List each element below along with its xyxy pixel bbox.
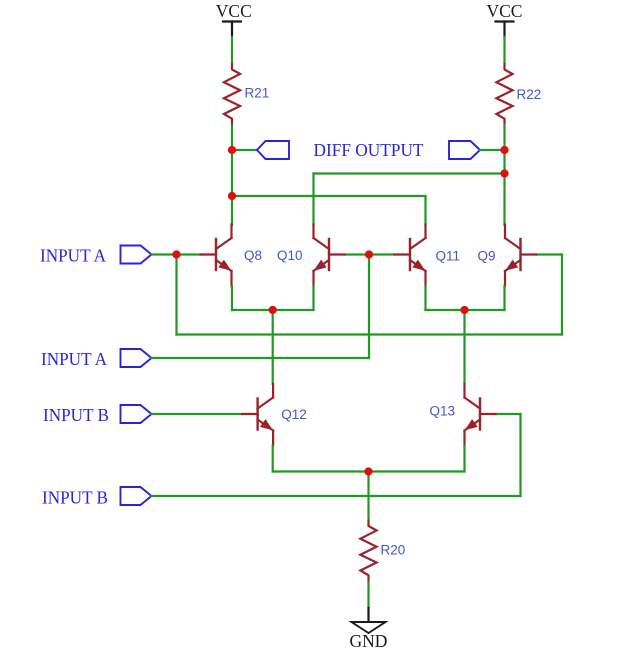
label INPUT A (upper) xyxy=(40,245,106,265)
svg-text:VCC: VCC xyxy=(487,1,523,21)
transistor Q13 xyxy=(430,384,496,446)
wire right flag to node R1 xyxy=(480,149,505,151)
wire R20 to ground lead xyxy=(367,582,369,608)
terminal INPUT A lower xyxy=(121,349,152,367)
wire to Q9 base lead xyxy=(536,253,562,255)
label INPUT B (upper) xyxy=(43,405,109,425)
terminal flag DIFF OUTPUT right xyxy=(449,141,480,159)
wire up to Q9 base xyxy=(561,255,563,335)
svg-text:DIFF OUTPUT: DIFF OUTPUT xyxy=(314,140,424,160)
wire Q8-Q10 emitters xyxy=(232,309,314,311)
wire up to Q13 base xyxy=(519,414,521,496)
junction node L2 xyxy=(228,192,236,200)
wire node C to Q11 base xyxy=(369,253,394,255)
junction node C xyxy=(365,250,373,258)
wire VCC-right to R22 xyxy=(503,37,505,63)
wire node E1 to Q12 collector xyxy=(272,310,274,384)
wire Q13 emitter down xyxy=(463,446,465,472)
svg-text:Q9: Q9 xyxy=(478,249,496,264)
transistor Q11 xyxy=(395,225,461,287)
terminal INPUT B upper xyxy=(121,405,152,423)
terminal flag DIFF OUTPUT left xyxy=(257,141,289,159)
wire node C down to INPUT A lower xyxy=(368,255,370,359)
wire down to Q10 collector (vert) xyxy=(312,174,314,226)
svg-text:Q12: Q12 xyxy=(281,407,307,422)
wire node L1 down to node L2 xyxy=(231,150,233,196)
wire VCC-left to R21 xyxy=(231,37,233,63)
wire Q11 emitter down xyxy=(424,286,426,310)
wire Q12-Q13 emitters xyxy=(273,470,465,472)
wire to Q13 base lead xyxy=(496,413,521,415)
wire R21 to node L1 xyxy=(231,125,233,150)
svg-text:R21: R21 xyxy=(245,86,270,101)
svg-text:Q8: Q8 xyxy=(244,248,262,263)
transistor Q9 xyxy=(478,225,537,287)
svg-text:INPUT B: INPUT B xyxy=(43,405,109,425)
transistor Q10 xyxy=(277,225,345,287)
wire node R2 to Q10 collector (horiz) xyxy=(314,172,505,174)
resistor R22 xyxy=(496,63,541,125)
wire INPUT A to Q8 base xyxy=(152,253,202,255)
svg-text:INPUT A: INPUT A xyxy=(40,245,106,265)
terminal INPUT A upper xyxy=(121,246,152,264)
ground xyxy=(350,608,388,651)
svg-text:Q13: Q13 xyxy=(430,404,456,419)
label INPUT A (lower) xyxy=(41,349,107,369)
wire down to Q11 collector (vert) xyxy=(424,196,426,225)
svg-text:INPUT B: INPUT B xyxy=(42,488,108,508)
wire Q12 emitter down xyxy=(272,446,274,472)
wire node L2 to Q11 collector (horiz) xyxy=(232,195,426,197)
terminal INPUT B lower xyxy=(121,487,152,505)
junction node E3 xyxy=(364,467,372,475)
wire node E2 to Q13 collector xyxy=(463,310,465,384)
junction node R2 xyxy=(500,169,508,177)
svg-text:R22: R22 xyxy=(517,87,542,102)
wire cross-couple bottom xyxy=(177,333,563,335)
svg-text:INPUT A: INPUT A xyxy=(41,349,107,369)
wire node R1 to node R2 xyxy=(503,150,505,174)
svg-text:VCC: VCC xyxy=(216,1,252,21)
wire node R2 to Q9 collector xyxy=(503,174,505,226)
svg-text:GND: GND xyxy=(350,631,388,651)
wire node E3 to R20 xyxy=(367,472,369,520)
svg-text:Q10: Q10 xyxy=(277,248,303,263)
junction node R1 xyxy=(500,146,508,154)
junction node A1 xyxy=(172,250,180,258)
junction node E2 xyxy=(460,306,468,314)
svg-text:Q11: Q11 xyxy=(436,249,461,264)
wire INPUT A lower to node C xyxy=(152,357,370,359)
wire Q8 emitter down xyxy=(231,286,233,310)
label INPUT B (lower) xyxy=(42,488,108,508)
wire R22 to node R1 xyxy=(503,125,505,150)
wire node A1 down xyxy=(175,255,177,335)
transistor Q8 xyxy=(201,225,263,287)
wire Q9 emitter down xyxy=(503,286,505,310)
transistor Q12 xyxy=(242,384,307,446)
wire node L1 to left flag xyxy=(232,149,257,151)
power VCC left xyxy=(216,1,252,37)
svg-text:R20: R20 xyxy=(381,543,406,558)
wire Q11-Q9 emitters xyxy=(426,309,505,311)
resistor R21 xyxy=(224,63,269,125)
label DIFF OUTPUT xyxy=(314,140,424,160)
wire INPUT B lower run xyxy=(152,495,521,497)
wire node L2 to Q8 collector xyxy=(231,196,233,225)
wire Q10 emitter down xyxy=(312,286,314,310)
wire INPUT B to Q12 base xyxy=(152,413,243,415)
junction node L1 xyxy=(228,146,236,154)
power VCC right xyxy=(487,1,523,37)
resistor R20 xyxy=(360,520,405,582)
junction node E1 xyxy=(269,306,277,314)
wire Q10 base to node C xyxy=(345,253,370,255)
